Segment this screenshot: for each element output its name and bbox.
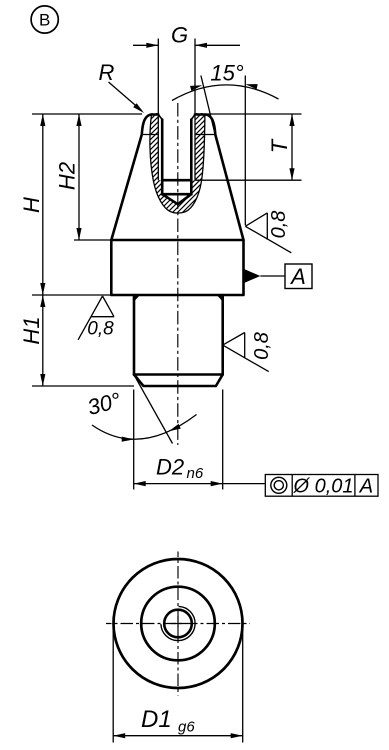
section hatching (broken-out section) bbox=[45, 112, 308, 215]
bottom view centerlines bbox=[106, 552, 250, 696]
dimension H extension lines bbox=[32, 114, 142, 386]
svg-text:H1: H1 bbox=[19, 316, 44, 344]
svg-text:0,8: 0,8 bbox=[87, 319, 114, 340]
svg-text:Ø 0,01: Ø 0,01 bbox=[292, 475, 353, 497]
bottom view: collar circle D1 bbox=[114, 559, 243, 688]
svg-text:n6: n6 bbox=[187, 465, 204, 482]
radius callout R bbox=[99, 60, 144, 113]
dimension H2 bbox=[55, 114, 82, 240]
dimension H bbox=[19, 114, 45, 295]
surface finish 0,8 under collar (left) bbox=[78, 296, 114, 340]
datum A symbol bbox=[244, 264, 313, 289]
tapped hole: minor diameter walls bbox=[162, 120, 191, 195]
svg-text:A: A bbox=[289, 264, 306, 289]
dimension D2 n6 bbox=[134, 390, 266, 490]
centerline front view bbox=[177, 103, 179, 445]
surface finish 0,8 on cone (right) bbox=[245, 211, 291, 253]
svg-text:D1: D1 bbox=[141, 706, 172, 733]
svg-text:D2: D2 bbox=[156, 455, 184, 480]
svg-text:0,8: 0,8 bbox=[268, 211, 290, 239]
dimension G bbox=[133, 23, 240, 48]
dimension H1 bbox=[19, 295, 45, 386]
view label B (circled) bbox=[31, 6, 58, 33]
bottom view: tap drill circle bbox=[164, 610, 192, 638]
spigot (lower cylinder) bbox=[134, 295, 223, 386]
surface finish 0,8 on spigot (right) bbox=[223, 332, 273, 372]
tapped hole: drill point bbox=[162, 194, 191, 204]
dimension T bbox=[195, 114, 302, 180]
tapped hole: thread depth line bbox=[162, 179, 191, 182]
bottom view: chamfer circle bbox=[141, 587, 215, 661]
tapped hole: drill shoulder line bbox=[162, 193, 191, 196]
dimension 30 deg (chamfer angle) bbox=[85, 375, 197, 444]
bottom view: thread major arc (3/4 circle) bbox=[161, 606, 195, 640]
svg-text:A: A bbox=[359, 476, 373, 498]
collar (flange) bbox=[111, 240, 243, 295]
svg-text:0,8: 0,8 bbox=[251, 332, 273, 360]
svg-text:R: R bbox=[99, 60, 115, 85]
svg-text:G: G bbox=[171, 23, 188, 48]
svg-text:T: T bbox=[267, 138, 292, 153]
sphere/cone tangent line bbox=[142, 134, 216, 136]
break line (broken-out section boundary) bbox=[150, 114, 205, 213]
svg-text:B: B bbox=[39, 11, 50, 30]
tapped hole: countersink chamfer bbox=[158, 115, 195, 120]
dimension D1 g6 bbox=[113, 628, 243, 743]
svg-text:H2: H2 bbox=[55, 162, 80, 190]
svg-text:H: H bbox=[19, 197, 44, 213]
dimension 15 deg bbox=[172, 60, 279, 225]
feature control frame: concentricity 0,01 A bbox=[265, 475, 378, 498]
front view: cone outline bbox=[111, 115, 243, 241]
tapped hole: thread major lines + G extension lines bbox=[158, 39, 195, 181]
svg-text:g6: g6 bbox=[178, 719, 195, 736]
svg-text:15°: 15° bbox=[210, 60, 243, 85]
